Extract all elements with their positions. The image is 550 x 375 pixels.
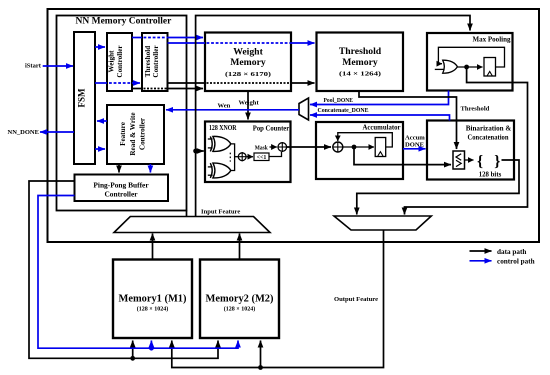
wire adder to register (343, 146, 374, 148)
svg-text:128 bits: 128 bits (479, 172, 502, 179)
junction dot input feature (193, 149, 198, 154)
svg-text:Memory2 (M2): Memory2 (M2) (206, 293, 274, 305)
wire Binarization output to Output mux (357, 160, 519, 215)
arrow comparator to braces (465, 159, 474, 161)
Input Feature mux trapezoid (114, 217, 270, 233)
Binarization & Concatenation block (427, 121, 514, 180)
wire Ping-Pong to memories (control) (38, 196, 238, 351)
pop counter adder 2 (277, 142, 287, 152)
svg-text:Threshold: Threshold (144, 46, 152, 77)
pop counter adder 1 (238, 152, 247, 161)
shift left box <<1 (254, 153, 269, 161)
Feature Read & Write Controller block (107, 105, 164, 164)
junction dot max pooling (464, 65, 469, 70)
wire gate to register (457, 66, 482, 68)
svg-text:Wen: Wen (218, 103, 231, 110)
svg-text:Threshold: Threshold (461, 106, 490, 113)
svg-text:Read & Write: Read & Write (129, 112, 137, 155)
DONE select mux (299, 98, 309, 120)
svg-text:Threshold: Threshold (339, 46, 382, 57)
wire Input Feature mux up to Max Pooling (196, 16, 470, 218)
legend control path arrow (470, 258, 535, 266)
svg-text:DONE: DONE (405, 141, 425, 148)
svg-text:Controller: Controller (116, 45, 124, 78)
wire Accumulator to comparator (354, 147, 451, 165)
svg-text:{: { (477, 153, 483, 170)
Weight Controller block (107, 33, 132, 91)
max pooling feedback loop (438, 47, 504, 67)
svg-text:128 XNOR: 128 XNOR (209, 124, 237, 132)
svg-text:Memory: Memory (342, 57, 378, 68)
Output Feature mux trapezoid (334, 216, 431, 230)
binarization comparator (453, 151, 465, 169)
svg-text:Pop Counter: Pop Counter (253, 125, 290, 133)
svg-text:Concatenation: Concatenation (468, 133, 510, 142)
XNOR gate A (208, 136, 231, 151)
svg-text:Weight: Weight (239, 100, 260, 107)
Weight Memory block (205, 33, 291, 92)
NN Memory Controller box (57, 16, 187, 211)
Max Pooling block (427, 33, 513, 91)
128 XNOR / Pop Counter block (205, 122, 291, 183)
svg-text:<<1: <<1 (257, 155, 267, 161)
wire Pop Counter output to Accumulator adder (287, 146, 331, 148)
wire shift box to adder 2 (269, 152, 282, 157)
svg-text:Max Pooling: Max Pooling (473, 34, 511, 43)
svg-text:FSM: FSM (77, 88, 87, 108)
svg-text:Controller: Controller (104, 190, 138, 199)
Ping-Pong Buffer Controller block (75, 175, 169, 202)
FSM block (74, 32, 95, 164)
wire Weight Controller to Weight Memory (control, dashed through Threshold Controller) (132, 37, 203, 39)
wire Threshold Controller to Threshold Memory (control, dashed through Weight Memory) (168, 42, 315, 44)
Threshold Memory block (317, 33, 404, 92)
concatenation braces (477, 153, 502, 179)
accumulator register (375, 138, 386, 157)
wire Feature controller to Ping-Pong (data) (118, 164, 120, 173)
wire Threshold Memory to comparator (Threshold) (359, 91, 490, 149)
iStart input arrow (25, 63, 73, 70)
wire Ping-Pong to memories (data) (29, 181, 218, 361)
wire Feature controller to Ping-Pong (control) (149, 164, 151, 173)
svg-text:NN_DONE: NN_DONE (8, 129, 39, 136)
svg-text:(128 × 6170): (128 × 6170) (225, 71, 271, 78)
svg-text:Concatenate_DONE: Concatenate_DONE (318, 107, 370, 114)
dashed divider between XNOR gates (229, 153, 231, 162)
accumulator feedback loop (338, 133, 393, 147)
wire Weight Controller to Weight Memory (data, dashed through Threshold Controller) (132, 88, 203, 90)
svg-text:Pool_DONE: Pool_DONE (324, 97, 354, 104)
svg-text:Ping-Pong Buffer: Ping-Pong Buffer (93, 180, 149, 189)
XNOR outputs join (231, 144, 235, 171)
svg-text:Accumulator: Accumulator (363, 123, 402, 132)
svg-text:Feature: Feature (119, 122, 127, 146)
wire Input Feature mux stub to NN box edge (186, 211, 188, 218)
svg-text:(128 × 1024): (128 × 1024) (224, 306, 256, 313)
Memory2 (M2) block (200, 260, 279, 339)
svg-text:Weight: Weight (108, 50, 116, 73)
outer enclosure box (48, 9, 540, 242)
max pooling register (484, 58, 496, 77)
Mask arrow (255, 144, 277, 151)
wire Threshold Controller to Threshold Memory (data, dashed through Weight Memory) (168, 82, 315, 84)
svg-text:}: } (494, 153, 500, 170)
svg-text:Controller: Controller (139, 117, 147, 150)
Memory1 (M1) block (113, 260, 192, 339)
wire Feature controller to FSM (97, 120, 107, 122)
wire Weight Memory to XNOR (Weight) (239, 91, 260, 120)
wire Pool_DONE from Max Pooling to DONE mux (310, 91, 449, 105)
svg-text:control path: control path (497, 258, 535, 266)
wire Wen from DONE mux to Feature controller (166, 103, 299, 110)
wire Memory1 to Input Feature mux (152, 234, 154, 260)
svg-text:Output Feature: Output Feature (334, 296, 378, 303)
wire FSM to Feature controller (95, 148, 105, 150)
legend data path arrow (470, 248, 527, 256)
svg-text:Mask: Mask (255, 144, 268, 151)
svg-text:(128 × 1024): (128 × 1024) (137, 306, 169, 313)
XNOR gate B (208, 163, 231, 178)
junction dot accumulator (352, 145, 357, 150)
NN_DONE output arrow (8, 129, 75, 136)
svg-text:Binarization &: Binarization & (466, 124, 512, 133)
svg-text:Input Feature: Input Feature (201, 209, 240, 216)
wire FSM to Threshold Controller (dashed through Weight Controller) (95, 82, 140, 84)
wire input feature to XNOR block (196, 150, 204, 152)
svg-text:Memory: Memory (230, 57, 266, 68)
accumulator adder (333, 142, 343, 152)
max pooling comparator gate U1 (435, 60, 458, 73)
wire Concatenate_DONE from Binarization to DONE mux (310, 107, 450, 120)
Accumulator block (316, 122, 403, 179)
arrow adder to shift box (247, 156, 253, 158)
svg-text:Controller: Controller (152, 45, 160, 78)
svg-text:(14 × 1264): (14 × 1264) (339, 71, 381, 78)
svg-text:Weight: Weight (233, 47, 263, 58)
svg-text:NN Memory Controller: NN Memory Controller (76, 17, 173, 27)
wire FSM to Weight Controller (95, 46, 105, 48)
wire Memory2 to Input Feature mux (239, 234, 241, 260)
svg-text:iStart: iStart (25, 63, 42, 70)
Threshold Controller block (142, 33, 168, 91)
wire Output Feature mux to memories (172, 230, 384, 370)
wire Accum DONE from Accumulator to Binarization (403, 135, 426, 149)
svg-text:data path: data path (497, 248, 526, 256)
wire Max Pooling output to Output mux (405, 67, 528, 215)
svg-text:Memory1 (M1): Memory1 (M1) (119, 293, 187, 305)
